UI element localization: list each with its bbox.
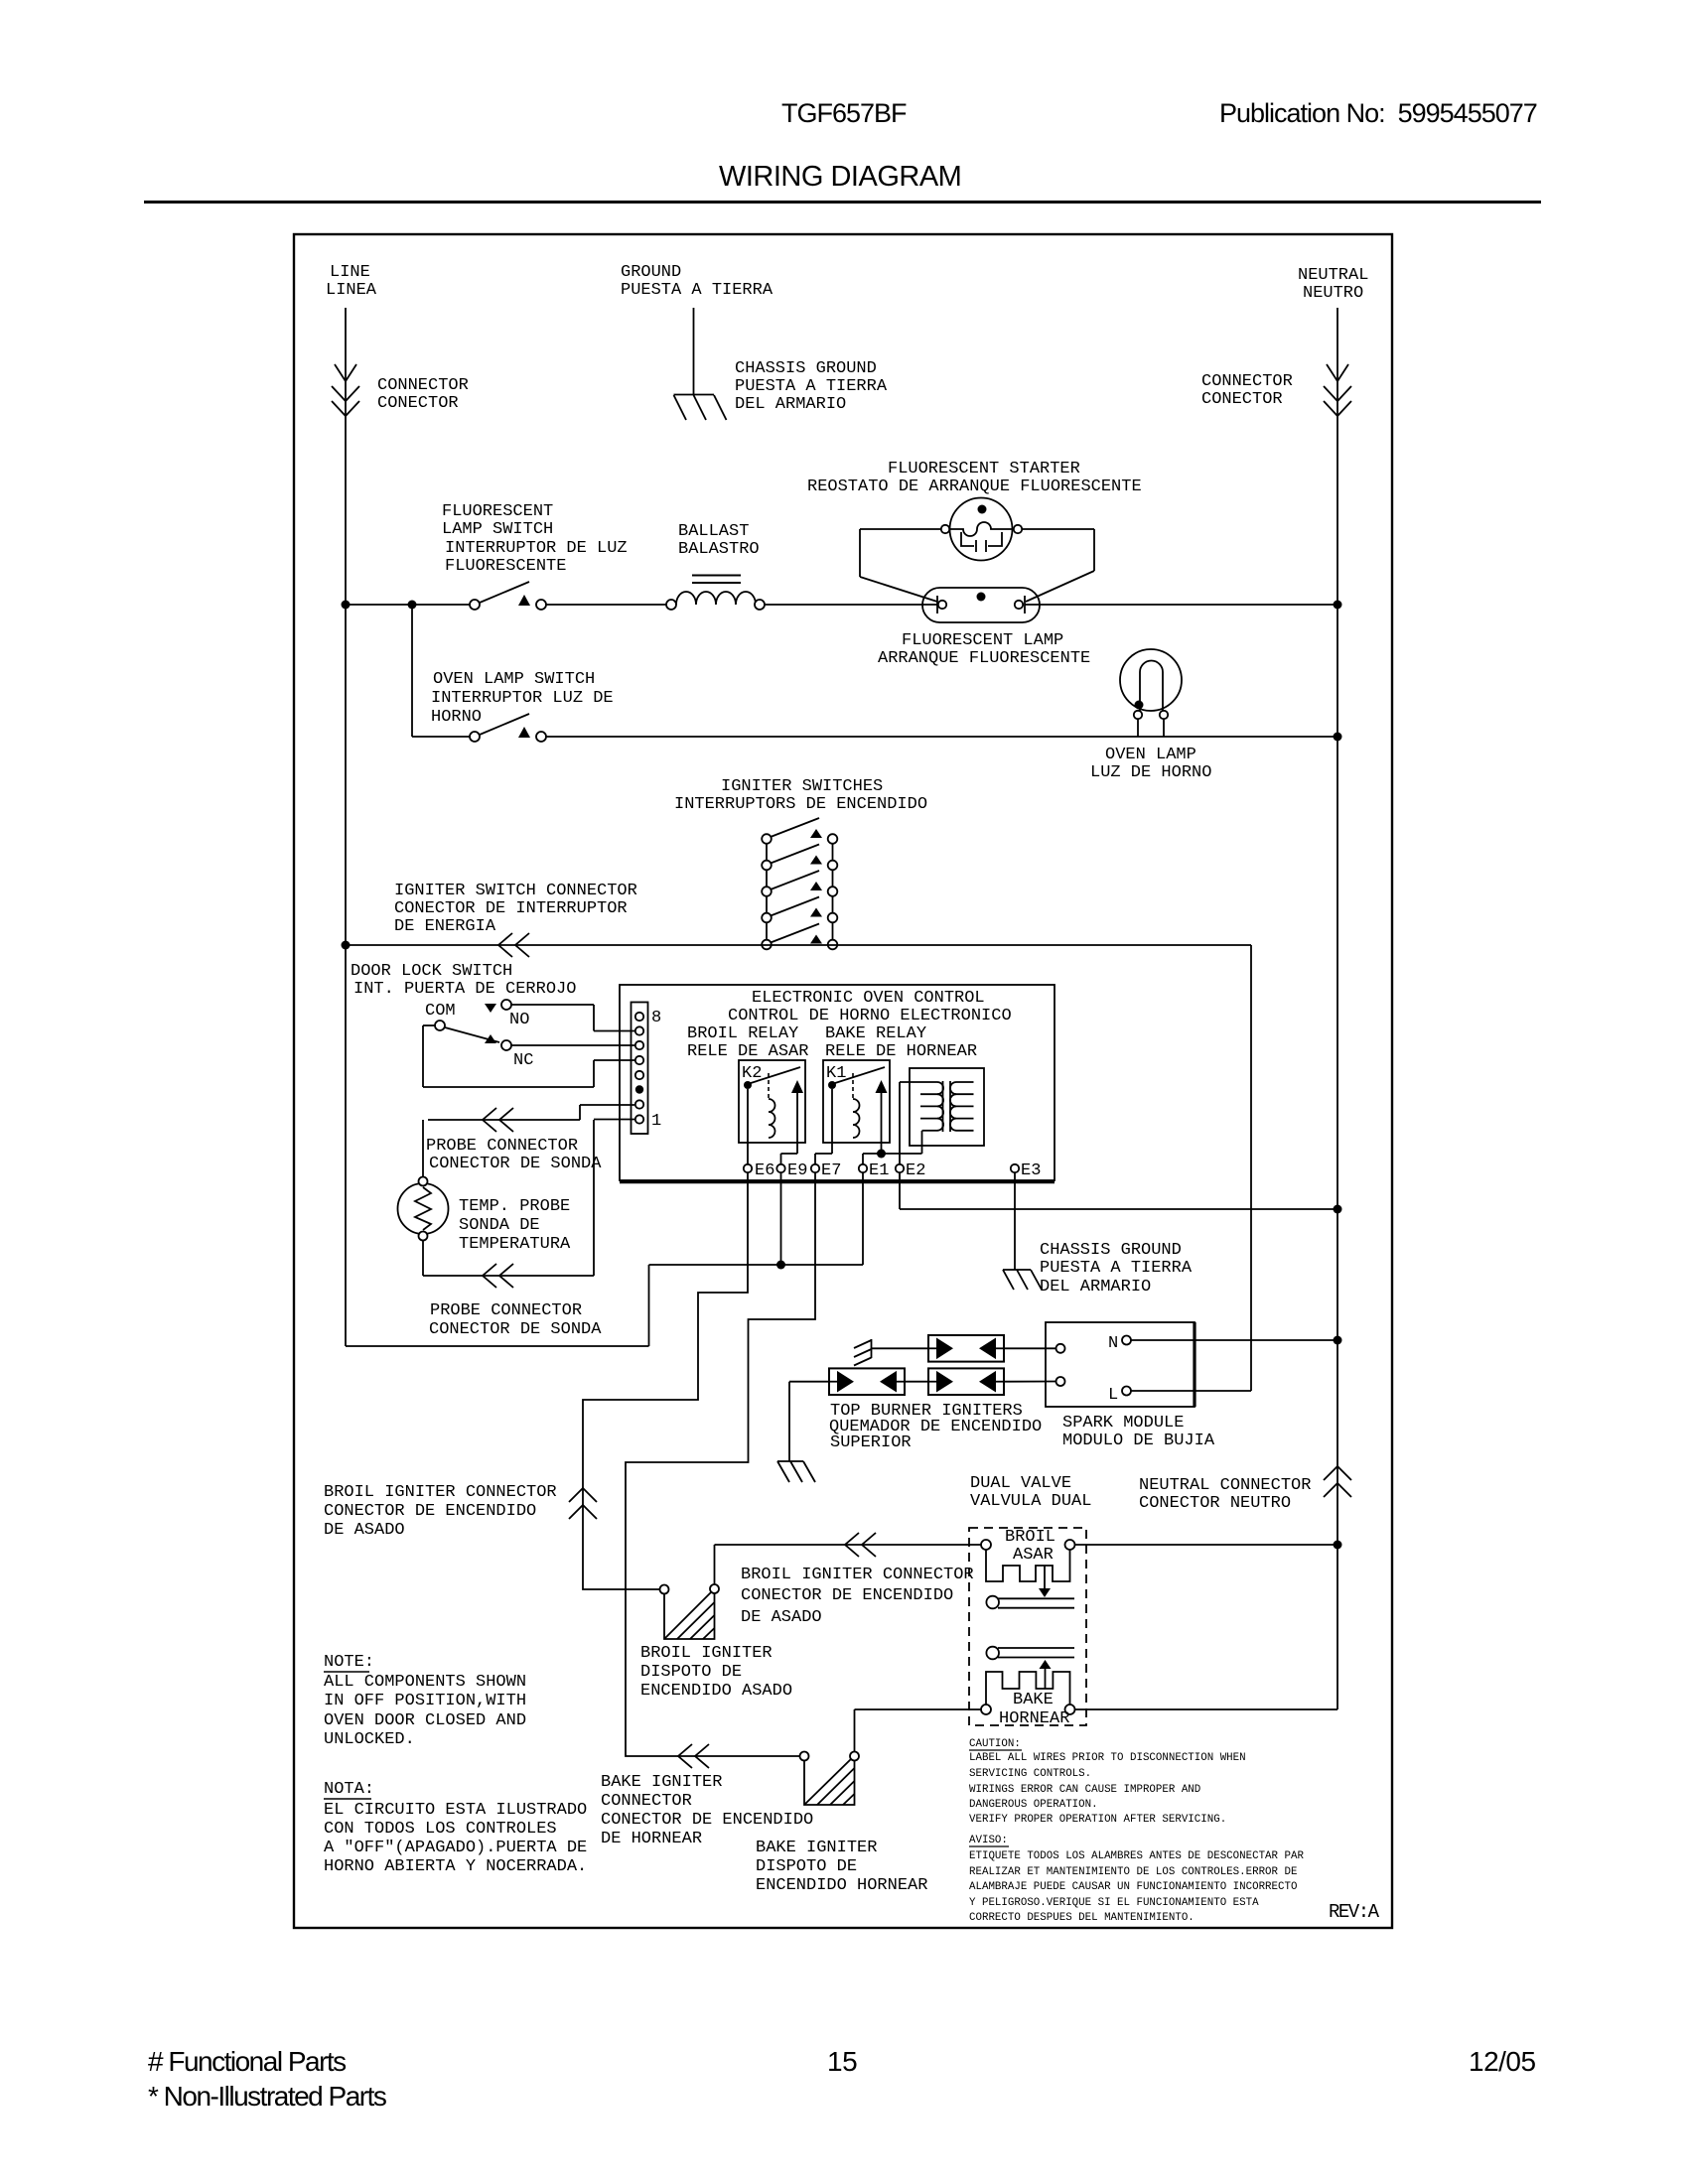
label K1: [826, 1064, 846, 1083]
label CAUTION heading: [969, 1738, 1022, 1750]
label CAUTION text: [969, 1752, 1246, 1826]
label N: [1108, 1334, 1118, 1353]
wire igniter B to ground: [789, 1382, 829, 1461]
wire electrode to igniter: [872, 1347, 929, 1349]
wire probe top drop: [422, 1120, 424, 1177]
svg-text:FLUORESCENT STARTER: FLUORESCENT STARTER: [888, 460, 1080, 478]
pin E1: [859, 1161, 890, 1180]
wire K2 arrow to E9: [781, 1143, 798, 1164]
label COM: [425, 1002, 456, 1021]
svg-text:BALASTRO: BALASTRO: [678, 540, 760, 559]
svg-text:CONECTOR DE SONDA: CONECTOR DE SONDA: [429, 1320, 602, 1339]
wire line bus: [346, 944, 1251, 946]
svg-text:BROIL: BROIL: [1005, 1528, 1055, 1547]
svg-text:VERIFY PROPER OPERATION AFTER: VERIFY PROPER OPERATION AFTER SERVICING.: [969, 1814, 1226, 1826]
oven lamp: [1120, 649, 1182, 737]
wire ballast to lamp: [765, 604, 937, 606]
label NC: [513, 1051, 533, 1070]
wire junction to transformer: [882, 1131, 922, 1154]
svg-text:BROIL IGNITER CONNECTOR: BROIL IGNITER CONNECTOR: [741, 1566, 974, 1584]
label NOTA text: [324, 1801, 587, 1876]
connector chevrons broil valve: [845, 1533, 876, 1557]
wire E1 drop: [862, 1172, 864, 1265]
chassis ground top: [674, 395, 727, 421]
label oven lamp switch: [431, 670, 614, 727]
svg-text:E1: E1: [869, 1161, 889, 1180]
svg-text:LINEA: LINEA: [326, 281, 377, 300]
svg-text:REOSTATO DE ARRANQUE FLUORESCE: REOSTATO DE ARRANQUE FLUORESCENTE: [807, 478, 1142, 496]
svg-text:* Non-Illustrated Parts: * Non-Illustrated Parts: [148, 2081, 386, 2112]
wire probe bottom: [423, 1120, 634, 1277]
svg-text:TEMP. PROBE: TEMP. PROBE: [459, 1197, 570, 1216]
label bake igniter: [756, 1839, 927, 1895]
svg-text:DE ENERGIA: DE ENERGIA: [394, 917, 496, 936]
wire oven lamp branch drop: [411, 605, 413, 737]
svg-text:VALVULA DUAL: VALVULA DUAL: [970, 1492, 1091, 1511]
spark module pins: [1056, 1336, 1132, 1396]
svg-text:NC: NC: [513, 1051, 533, 1070]
svg-text:DUAL VALVE: DUAL VALVE: [970, 1474, 1071, 1493]
wire lamp to neutral: [1025, 604, 1334, 606]
wire transformer to E2: [899, 1082, 901, 1164]
label dual valve: [970, 1474, 1091, 1511]
svg-text:CORRECTO DESPUES DEL MANTENIMI: CORRECTO DESPUES DEL MANTENIMIENTO.: [969, 1912, 1195, 1924]
svg-text:INT. PUERTA DE CERROJO: INT. PUERTA DE CERROJO: [353, 980, 576, 999]
node GROUND label: [621, 263, 774, 300]
pin E7: [811, 1161, 842, 1180]
svg-text:CONNECTOR: CONNECTOR: [1201, 372, 1293, 391]
svg-text:NEUTRAL CONNECTOR: NEUTRAL CONNECTOR: [1139, 1476, 1311, 1495]
wire branch to switch: [412, 736, 470, 738]
wire bus drop to spark L: [1131, 945, 1251, 1391]
svg-text:FLUORESCENTE: FLUORESCENTE: [445, 557, 566, 576]
svg-text:FLUORESCENT: FLUORESCENT: [442, 502, 553, 521]
wire switch to ballast: [546, 604, 666, 606]
wire K2 coil common to E6: [747, 1089, 749, 1164]
switch fluorescent lamp: [470, 582, 546, 610]
svg-text:MODULO DE BUJIA: MODULO DE BUJIA: [1062, 1432, 1215, 1450]
connector arrow NEUTRAL: [1327, 364, 1348, 381]
label pin 1: [651, 1112, 661, 1131]
label functional parts: [148, 2046, 386, 2112]
junction dot spark N: [1334, 1336, 1342, 1345]
svg-text:DE HORNEAR: DE HORNEAR: [601, 1830, 702, 1848]
svg-text:NOTA:: NOTA:: [324, 1780, 374, 1799]
svg-text:FLUORESCENT LAMP: FLUORESCENT LAMP: [902, 631, 1063, 650]
svg-text:PUESTA A TIERRA: PUESTA A TIERRA: [735, 377, 888, 396]
junction dot line-bus: [342, 601, 351, 610]
pin E9: [776, 1161, 807, 1180]
svg-text:PUESTA A TIERRA: PUESTA A TIERRA: [1040, 1259, 1193, 1278]
svg-text:NOTE:: NOTE:: [324, 1653, 374, 1672]
wire E2 to neutral: [900, 1172, 1334, 1209]
label fluorescent starter: [807, 460, 1142, 496]
dual valve box: [969, 1528, 1086, 1725]
pin E2: [896, 1161, 926, 1180]
label date: [1469, 2046, 1536, 2077]
junction dot K1 arrow: [877, 1150, 886, 1159]
junction dot oven lamp neutral: [1334, 733, 1342, 742]
title rule: [144, 201, 1541, 204]
wire E6 to broil igniter: [583, 1172, 748, 1589]
label AVISO text: [969, 1850, 1304, 1924]
label broil valve: [1005, 1528, 1055, 1565]
svg-text:CHASSIS GROUND: CHASSIS GROUND: [735, 359, 877, 378]
svg-text:DISPOTO DE: DISPOTO DE: [640, 1663, 742, 1682]
label temp probe: [459, 1197, 571, 1254]
svg-text:BROIL RELAY: BROIL RELAY: [687, 1024, 798, 1043]
label spark module: [1062, 1414, 1215, 1450]
svg-text:HORNO: HORNO: [431, 708, 482, 727]
svg-text:DEL ARMARIO: DEL ARMARIO: [735, 395, 846, 414]
svg-text:K2: K2: [742, 1064, 762, 1083]
wire bake valve to neutral: [1075, 1708, 1338, 1710]
wire pin7 to probe connector: [428, 1105, 634, 1120]
spark electrode bottom: [777, 1461, 815, 1482]
svg-text:IGNITER SWITCH CONNECTOR: IGNITER SWITCH CONNECTOR: [394, 882, 637, 900]
svg-text:ENCENDIDO ASADO: ENCENDIDO ASADO: [640, 1682, 792, 1701]
svg-text:CHASSIS GROUND: CHASSIS GROUND: [1040, 1241, 1182, 1260]
wire LINE drop: [345, 308, 347, 945]
switch oven lamp: [470, 714, 546, 742]
svg-text:LINE: LINE: [330, 263, 370, 282]
label AVISO heading: [969, 1835, 1009, 1846]
junction dot lamp branch: [408, 601, 417, 610]
svg-text:BAKE: BAKE: [1013, 1691, 1054, 1709]
connector chevrons LINE: [332, 386, 359, 416]
label chassis ground top: [735, 359, 888, 414]
top burner igniter A: [928, 1335, 1004, 1362]
svg-text:N: N: [1108, 1334, 1118, 1353]
svg-text:CON TODOS LOS CONTROLES: CON TODOS LOS CONTROLES: [324, 1820, 557, 1839]
relay K1: [823, 1060, 890, 1154]
label fluorescent lamp switch: [442, 502, 628, 576]
spark module box: [1046, 1322, 1195, 1407]
svg-text:ALAMBRAJE PUEDE CAUSAR UN FUNC: ALAMBRAJE PUEDE CAUSAR UN FUNCIONAMIENTO…: [969, 1881, 1297, 1893]
svg-text:ASAR: ASAR: [1013, 1546, 1054, 1565]
label probe connector bottom: [429, 1301, 602, 1339]
wire K1 arrow junction to E1: [863, 1154, 882, 1164]
svg-text:NEUTRO: NEUTRO: [1303, 284, 1363, 303]
svg-text:CONECTOR DE ENCENDIDO: CONECTOR DE ENCENDIDO: [601, 1811, 813, 1830]
fluorescent lamp: [922, 588, 1040, 622]
wire E3 to ground: [1014, 1172, 1016, 1270]
wire NEUTRAL drop: [1336, 308, 1338, 1709]
svg-text:CONNECTOR: CONNECTOR: [601, 1792, 692, 1811]
label EOC line1: [752, 989, 985, 1008]
svg-text:DISPOTO DE: DISPOTO DE: [756, 1857, 857, 1876]
label bake relay: [825, 1024, 977, 1061]
svg-text:CONECTOR: CONECTOR: [377, 394, 459, 413]
svg-text:LUZ DE HORNO: LUZ DE HORNO: [1090, 763, 1211, 782]
svg-text:ENCENDIDO HORNEAR: ENCENDIDO HORNEAR: [756, 1876, 927, 1895]
broil igniter: [660, 1584, 720, 1639]
top burner igniter C: [928, 1368, 1004, 1395]
node NEUTRAL label: [1298, 266, 1368, 303]
label oven lamp: [1090, 746, 1211, 782]
wire spark N to neutral: [1131, 1339, 1334, 1341]
svg-text:CAUTION:: CAUTION:: [969, 1738, 1021, 1750]
svg-text:WIRING DIAGRAM: WIRING DIAGRAM: [719, 161, 961, 193]
connector chevrons probe bottom: [483, 1264, 513, 1288]
label page number: [827, 2046, 857, 2077]
svg-text:LAMP SWITCH: LAMP SWITCH: [442, 520, 553, 539]
label broil igniter connector right: [741, 1566, 974, 1627]
svg-text:CONECTOR NEUTRO: CONECTOR NEUTRO: [1139, 1494, 1291, 1513]
svg-text:PUESTA A TIERRA: PUESTA A TIERRA: [621, 281, 774, 300]
svg-text:SPARK MODULE: SPARK MODULE: [1062, 1414, 1184, 1433]
label NO: [509, 1011, 529, 1029]
svg-text:CONECTOR DE ENCENDIDO: CONECTOR DE ENCENDIDO: [741, 1586, 953, 1605]
svg-text:TGF657BF: TGF657BF: [781, 98, 907, 128]
label fluorescent lamp: [878, 631, 1090, 668]
svg-text:CONNECTOR: CONNECTOR: [377, 376, 469, 395]
junction dot line bus: [342, 941, 351, 950]
svg-text:CONECTOR DE SONDA: CONECTOR DE SONDA: [429, 1155, 602, 1173]
label K2: [742, 1064, 762, 1083]
svg-text:OVEN LAMP SWITCH: OVEN LAMP SWITCH: [433, 670, 595, 689]
top burner igniter B: [829, 1368, 905, 1395]
wire broil igniter to valve: [715, 1545, 982, 1584]
label EOC line2: [728, 1007, 1012, 1025]
svg-text:K1: K1: [826, 1064, 846, 1083]
svg-text:BAKE IGNITER: BAKE IGNITER: [601, 1773, 722, 1792]
svg-text:L: L: [1108, 1386, 1118, 1405]
svg-text:DANGEROUS OPERATION.: DANGEROUS OPERATION.: [969, 1799, 1098, 1811]
svg-text:WIRINGS ERROR CAN CAUSE IMPROP: WIRINGS ERROR CAN CAUSE IMPROPER AND: [969, 1784, 1200, 1796]
junction dot E9: [776, 1261, 785, 1270]
wire line rail to link: [346, 945, 649, 1346]
junction dot bus-neutral: [1334, 601, 1342, 610]
junction dot broil neutral: [1334, 1541, 1342, 1550]
spark electrode top: [854, 1339, 872, 1366]
wire E9-E1 link: [649, 1264, 864, 1266]
broil gas outlet: [986, 1596, 1074, 1609]
svg-text:E2: E2: [906, 1161, 925, 1180]
svg-text:BAKE RELAY: BAKE RELAY: [825, 1024, 926, 1043]
connector chevrons NEUTRAL: [1324, 386, 1351, 416]
svg-text:15: 15: [827, 2046, 857, 2077]
svg-text:E7: E7: [821, 1161, 841, 1180]
bake valve solenoid: [981, 1660, 1075, 1714]
fluorescent starter: [941, 498, 1022, 561]
svg-text:ALL COMPONENTS SHOWN: ALL COMPONENTS SHOWN: [324, 1673, 526, 1692]
svg-text:CONECTOR: CONECTOR: [1201, 390, 1283, 409]
label NOTE heading: [324, 1653, 374, 1672]
ballast L1: [666, 576, 765, 611]
label probe connector top: [426, 1137, 602, 1173]
svg-text:ELECTRONIC OVEN CONTROL: ELECTRONIC OVEN CONTROL: [752, 989, 985, 1008]
svg-text:1: 1: [651, 1112, 661, 1131]
label igniter switch connector: [394, 882, 637, 936]
svg-text:PROBE CONNECTOR: PROBE CONNECTOR: [430, 1301, 582, 1320]
svg-text:CONTROL DE HORNO ELECTRONICO: CONTROL DE HORNO ELECTRONICO: [728, 1007, 1012, 1025]
junction dot E2 neutral: [1334, 1205, 1342, 1214]
wire K1 common to E7: [815, 1089, 832, 1164]
relay K2: [739, 1060, 805, 1143]
svg-text:CONECTOR DE ENCENDIDO: CONECTOR DE ENCENDIDO: [324, 1502, 536, 1521]
svg-text:CONECTOR DE INTERRUPTOR: CONECTOR DE INTERRUPTOR: [394, 899, 628, 918]
svg-text:RELE DE HORNEAR: RELE DE HORNEAR: [825, 1042, 977, 1061]
wire starter loop right: [1022, 529, 1094, 602]
connector strip P1: [632, 1003, 648, 1135]
svg-text:A "OFF"(APAGADO).PUERTA DE: A "OFF"(APAGADO).PUERTA DE: [324, 1839, 587, 1857]
svg-text:AVISO:: AVISO:: [969, 1835, 1008, 1846]
svg-text:# Functional Parts: # Functional Parts: [148, 2046, 346, 2077]
label NOTA heading: [324, 1780, 374, 1799]
pin E6: [744, 1161, 775, 1180]
label connector right: [1201, 372, 1293, 409]
label chassis ground mid: [1040, 1241, 1193, 1297]
svg-text:NO: NO: [509, 1011, 529, 1029]
label ballast: [678, 522, 760, 559]
connector chevrons neutral: [1324, 1466, 1351, 1497]
svg-text:OVEN DOOR CLOSED AND: OVEN DOOR CLOSED AND: [324, 1711, 526, 1730]
connector arrow LINE: [335, 364, 356, 381]
electronic oven control box: [620, 985, 1055, 1182]
svg-text:E3: E3: [1021, 1161, 1041, 1180]
wire broil valve to neutral: [1075, 1544, 1335, 1546]
label REV A: [1329, 1901, 1380, 1923]
wire bus left: [350, 604, 470, 606]
svg-text:SONDA DE: SONDA DE: [459, 1216, 540, 1235]
connector chevrons broil igniter: [569, 1488, 597, 1519]
label bake igniter connector: [601, 1773, 813, 1848]
svg-text:GROUND: GROUND: [621, 263, 681, 282]
transformer T1: [900, 1068, 984, 1146]
bake gas outlet: [986, 1647, 1074, 1660]
svg-text:BROIL IGNITER CONNECTOR: BROIL IGNITER CONNECTOR: [324, 1483, 557, 1502]
svg-text:HORNEAR: HORNEAR: [999, 1709, 1069, 1728]
pin E3: [1011, 1161, 1042, 1180]
label broil igniter connector left: [324, 1483, 557, 1540]
temp probe: [398, 1177, 449, 1241]
igniter switches ladder: [762, 818, 837, 949]
svg-text:12/05: 12/05: [1469, 2046, 1536, 2077]
node LINE label: [326, 263, 377, 300]
svg-text:DE ASADO: DE ASADO: [324, 1521, 405, 1540]
svg-text:RELE DE ASAR: RELE DE ASAR: [687, 1042, 808, 1061]
label connector left: [377, 376, 469, 413]
svg-text:IN OFF POSITION,WITH: IN OFF POSITION,WITH: [324, 1692, 526, 1710]
svg-text:DOOR LOCK SWITCH: DOOR LOCK SWITCH: [351, 962, 512, 981]
wire bake igniter to valve: [855, 1709, 982, 1752]
chassis ground E3: [1003, 1270, 1042, 1290]
label door lock switch: [351, 962, 576, 999]
wire E9 drop: [780, 1172, 782, 1265]
svg-text:HORNO ABIERTA Y NOCERRADA.: HORNO ABIERTA Y NOCERRADA.: [324, 1857, 587, 1876]
svg-text:UNLOCKED.: UNLOCKED.: [324, 1730, 415, 1749]
svg-text:INTERRUPTOR LUZ DE: INTERRUPTOR LUZ DE: [431, 689, 614, 708]
svg-text:COM: COM: [425, 1002, 456, 1021]
svg-text:SUPERIOR: SUPERIOR: [830, 1433, 912, 1452]
svg-text:IGNITER SWITCHES: IGNITER SWITCHES: [721, 777, 883, 796]
bake igniter: [800, 1752, 860, 1806]
svg-text:OVEN LAMP: OVEN LAMP: [1105, 746, 1196, 764]
svg-text:E9: E9: [787, 1161, 807, 1180]
switch door lock: [435, 1000, 511, 1050]
wire starter loop left: [860, 529, 941, 602]
wire igniter C to spark module: [1004, 1381, 1056, 1383]
svg-text:BAKE IGNITER: BAKE IGNITER: [756, 1839, 877, 1857]
svg-text:PROBE CONNECTOR: PROBE CONNECTOR: [426, 1137, 578, 1156]
wire COM to pin4: [423, 1025, 634, 1087]
wire ground drop: [693, 308, 695, 395]
label broil relay: [687, 1024, 808, 1061]
svg-text:SERVICING CONTROLS.: SERVICING CONTROLS.: [969, 1768, 1091, 1780]
svg-text:DEL ARMARIO: DEL ARMARIO: [1040, 1278, 1151, 1297]
label pin 8: [651, 1009, 661, 1027]
label L: [1108, 1386, 1118, 1405]
svg-text:Y PELIGROSO.VERIQUE SI EL FUNC: Y PELIGROSO.VERIQUE SI EL FUNCIONAMIENTO…: [969, 1897, 1259, 1909]
svg-text:EL CIRCUITO ESTA ILUSTRADO: EL CIRCUITO ESTA ILUSTRADO: [324, 1801, 587, 1820]
svg-text:8: 8: [651, 1009, 661, 1027]
svg-text:TEMPERATURA: TEMPERATURA: [459, 1235, 571, 1254]
wire switch to oven lamp: [546, 736, 1334, 738]
svg-text:REV:A: REV:A: [1329, 1901, 1380, 1923]
wire E7 to bake igniter: [626, 1172, 815, 1756]
svg-text:NEUTRAL: NEUTRAL: [1298, 266, 1368, 285]
connector chevrons igniter switch: [498, 933, 529, 957]
label top burner igniters: [829, 1402, 1042, 1452]
svg-text:DE ASADO: DE ASADO: [741, 1608, 822, 1627]
svg-text:ARRANQUE FLUORESCENTE: ARRANQUE FLUORESCENTE: [878, 649, 1090, 668]
svg-text:E6: E6: [755, 1161, 774, 1180]
connector chevrons bake igniter: [678, 1744, 709, 1768]
label bake valve: [999, 1691, 1069, 1728]
broil valve solenoid: [981, 1540, 1075, 1597]
label neutral connector: [1139, 1476, 1311, 1513]
svg-text:INTERRUPTOR DE LUZ: INTERRUPTOR DE LUZ: [445, 539, 628, 558]
label NOTE text: [324, 1673, 526, 1749]
svg-text:INTERRUPTORS DE ENCENDIDO: INTERRUPTORS DE ENCENDIDO: [674, 795, 927, 814]
svg-text:BROIL IGNITER: BROIL IGNITER: [640, 1644, 773, 1663]
wire NC to pin3: [511, 1044, 634, 1046]
label broil igniter: [640, 1644, 792, 1701]
border frame: [294, 234, 1392, 1928]
wire igniter A to spark module: [1004, 1347, 1056, 1349]
label igniter switches: [674, 777, 927, 814]
svg-text:ETIQUETE TODOS LOS ALAMBRES AN: ETIQUETE TODOS LOS ALAMBRES ANTES DE DES…: [969, 1850, 1304, 1862]
connector chevrons probe top: [483, 1108, 513, 1132]
wire igniter B to C: [905, 1381, 928, 1383]
svg-text:REALIZAR ET MANTENIMIENTO DE L: REALIZAR ET MANTENIMIENTO DE LOS CONTROL…: [969, 1866, 1297, 1878]
svg-text:BALLAST: BALLAST: [678, 522, 749, 541]
svg-text:Publication No: 5995455077: Publication No: 5995455077: [1219, 98, 1537, 128]
wire NO to pin2: [511, 1005, 634, 1031]
svg-text:LABEL ALL WIRES PRIOR TO DISCO: LABEL ALL WIRES PRIOR TO DISCONNECTION W…: [969, 1752, 1246, 1764]
